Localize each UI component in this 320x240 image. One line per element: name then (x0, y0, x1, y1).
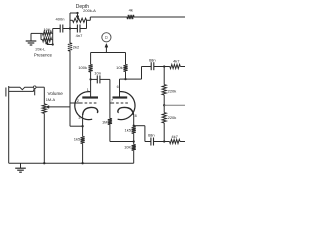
triode V1b plate lead pin 6 (120, 79, 126, 97)
resistor 10K presence (43, 31, 52, 35)
svg-text:100k: 100k (78, 65, 87, 70)
capacitor 4n7 (77, 25, 80, 33)
jack tip terminal circle (33, 86, 36, 89)
wire 68n to junction upper (154, 66, 170, 68)
wire B+ arrow stem (105, 46, 107, 52)
svg-text:4k7: 4k7 (171, 134, 178, 139)
svg-text:2k2: 2k2 (73, 44, 80, 49)
jack J1 barrel bars (6, 86, 9, 98)
pin 7 label (111, 99, 113, 103)
triode V1a plate lead pin 1 (90, 79, 92, 97)
label 10k (116, 65, 122, 70)
junction plate V1b (124, 78, 126, 80)
triode V1b envelope (118, 92, 135, 120)
wire upper output to edge (180, 66, 185, 68)
svg-text:6: 6 (117, 85, 119, 89)
wire cap line middle (63, 28, 78, 30)
triode V1a envelope (75, 92, 92, 120)
pin 1 label (87, 88, 89, 92)
svg-text:68n: 68n (148, 133, 155, 138)
triode V1b cathode (118, 107, 134, 115)
label 2k2 (73, 44, 80, 49)
triode V1b plate bar (113, 96, 128, 98)
svg-text:68n: 68n (149, 57, 156, 62)
label 400n (56, 16, 65, 21)
wire presence wiper (47, 43, 53, 45)
svg-text:10n: 10n (94, 70, 101, 75)
wire jack tip to volume (36, 86, 44, 88)
B+ arrowhead (105, 44, 108, 48)
ground symbol rail (15, 163, 26, 172)
wire 10n to grid V1b (100, 79, 110, 103)
svg-text:2: 2 (77, 99, 79, 103)
wire grid V1a from volume (70, 102, 80, 104)
svg-text:1k5: 1k5 (125, 128, 132, 133)
wire depth pot left terminal (70, 19, 73, 21)
label 4k7 upper (173, 59, 180, 64)
label 10K tail (124, 144, 131, 149)
label 4k7 lower (171, 134, 178, 139)
label 1k5 V1a (74, 136, 81, 141)
label 220k upper (168, 88, 177, 93)
capacitor 10n (97, 75, 100, 83)
wire cap line left segment (53, 28, 61, 30)
svg-text:4k: 4k (129, 7, 133, 12)
pin 8 label (135, 114, 137, 118)
potentiometer Depth 200k-A body (73, 18, 87, 22)
triode V1a grid dashes (80, 102, 98, 104)
wire presence right junction (52, 29, 53, 45)
junction 1k5 rail (81, 162, 83, 164)
triode V1a plate bar (82, 96, 98, 98)
wire 1M to cathode divider (110, 125, 134, 142)
resistor 4k7 lower (170, 139, 181, 143)
junction volume ground rail (43, 162, 45, 164)
resistor 1k5 V1a cathode (81, 137, 85, 144)
wire rail to 10k (125, 53, 127, 65)
pin 6 label (117, 85, 119, 89)
wire grid V1b lead (110, 102, 112, 104)
node HT letter (105, 35, 108, 40)
resistor 1M grid leak (108, 118, 112, 124)
svg-text:7: 7 (111, 99, 113, 103)
junction plate V1a / coupling cap (89, 78, 91, 80)
triode V1b grid dashes (112, 102, 129, 104)
wire depth pot right terminal to top wire (87, 17, 91, 20)
resistor 100k (89, 65, 93, 73)
wire 10k to plate node (125, 72, 127, 80)
label Presence (34, 53, 53, 58)
label 220k lower (168, 115, 177, 120)
resistor 10K tail (132, 145, 136, 151)
label 200k-A (83, 8, 96, 13)
svg-text:400n: 400n (56, 16, 65, 21)
svg-text:Volume: Volume (48, 91, 64, 96)
label 4n7 (76, 33, 83, 38)
presence wiper arrowhead (46, 41, 49, 44)
wire volume wiper to grid step (49, 103, 70, 107)
label 100k (78, 65, 87, 70)
svg-text:Presence: Presence (34, 53, 53, 58)
wire 1k5 to ground rail (82, 144, 84, 164)
wire top NFB line from Depth to right edge (90, 16, 185, 18)
resistor 4k on NFB line (127, 15, 134, 19)
wire plate V1a to resistor (90, 53, 92, 65)
junction bias feed (163, 104, 165, 106)
potentiometer Presence 20k-L body (43, 38, 52, 42)
svg-text:220k: 220k (168, 88, 177, 93)
svg-text:1M-A: 1M-A (46, 97, 56, 102)
wire B+ rail (91, 52, 126, 54)
ground presence (26, 41, 37, 45)
wire junction to 10K (133, 142, 135, 145)
wire cathode node to 1k5 (82, 126, 84, 136)
wire 220k lower to output line (163, 123, 165, 142)
wire volume top (43, 87, 45, 104)
label 4k (129, 7, 133, 12)
wire NFB vertical lower (69, 51, 71, 126)
capacitor 400n (60, 25, 63, 33)
wire cathode to 1k5 (133, 125, 135, 128)
triode V1b cathode lead pin 8 (133, 115, 135, 126)
label 10K presence (43, 27, 50, 32)
svg-text:200k-A: 200k-A (83, 8, 96, 13)
label 1k5 cathodyne (125, 128, 132, 133)
wire 68n lower to junction (154, 141, 170, 143)
depth wiper arrowhead (76, 16, 79, 19)
svg-text:10k: 10k (116, 65, 122, 70)
wire 1k5 to junction (133, 134, 135, 142)
label 1M (102, 119, 108, 124)
junction presence wiper (52, 43, 54, 45)
wire cathode tap to lower cap (134, 126, 151, 142)
junction depth wiper (76, 12, 78, 14)
wire NFB vertical upper (69, 29, 71, 44)
jack sleeve stub (34, 89, 36, 96)
svg-text:10K: 10K (124, 144, 131, 149)
svg-text:8: 8 (135, 114, 137, 118)
svg-text:4k7: 4k7 (173, 59, 180, 64)
junction upper output (163, 65, 165, 67)
wire presence to ground (31, 33, 41, 41)
wire ground rail (9, 162, 134, 164)
svg-text:1k5: 1k5 (74, 136, 81, 141)
svg-text:10K: 10K (43, 27, 50, 32)
wire upper node to 220k (163, 67, 165, 85)
wire presence left junction (41, 33, 43, 39)
svg-text:3: 3 (78, 116, 80, 120)
wire cap line right segment (80, 28, 87, 30)
resistor 1k5 cathodyne (132, 127, 136, 134)
wire NFB to left cathode (70, 125, 83, 127)
capacitor 68n lower (151, 138, 154, 146)
label 20k-L (35, 47, 46, 52)
svg-text:D: D (105, 35, 108, 40)
wire grid node to resistor 1M (109, 103, 111, 118)
label Volume (48, 91, 64, 96)
pin 3 label (78, 116, 80, 120)
volume wiper arrowhead (46, 106, 49, 109)
junction cathode V1b output tap (133, 125, 135, 127)
capacitor 68n upper (151, 62, 154, 70)
svg-text:4n7: 4n7 (76, 33, 83, 38)
label 68n upper (149, 57, 156, 62)
resistor 220k upper (162, 85, 166, 95)
wire jack sleeve to ground rail (8, 98, 10, 163)
wire depth wiper to left terminal (70, 13, 78, 17)
resistor 10k (123, 65, 127, 72)
label Depth (76, 4, 90, 10)
junction NFB cathode (81, 125, 83, 127)
wire lower output to edge (180, 141, 185, 143)
wire volume bottom to rail (43, 113, 45, 163)
wire bias feed gray (164, 104, 185, 106)
junction grid leak return (133, 140, 135, 142)
jack tip contact with notch (9, 87, 34, 90)
svg-text:220k: 220k (168, 115, 177, 120)
label 10n (94, 70, 101, 75)
potentiometer Volume 1M-A body (42, 104, 46, 114)
junction cap line / NFB vertical (69, 27, 71, 29)
wire 220k to bias node (163, 95, 165, 113)
svg-text:1M: 1M (102, 119, 108, 124)
wire plate V1b step to output (126, 67, 152, 80)
wire depth left vertical (69, 13, 71, 29)
label 68n lower (148, 133, 155, 138)
svg-text:1: 1 (87, 88, 89, 92)
wire 10K to ground rail (133, 151, 135, 164)
pin 2 label (77, 99, 79, 103)
label 1M-A (46, 97, 56, 102)
triode V1a cathode (83, 107, 98, 115)
wire resistor 100k to plate node (90, 72, 92, 79)
wire depth right vertical (86, 20, 88, 28)
jack sleeve contact (9, 89, 34, 91)
triode V1a cathode lead pin 3 (82, 115, 84, 127)
junction lower output (163, 140, 165, 142)
resistor 220k lower (162, 113, 166, 123)
resistor 2k2 NFB (68, 43, 72, 51)
node HT supply circle (102, 33, 111, 42)
resistor 4k7 upper (170, 64, 181, 68)
wire plate node to 10n (91, 78, 98, 80)
svg-text:20k-L: 20k-L (35, 47, 46, 52)
